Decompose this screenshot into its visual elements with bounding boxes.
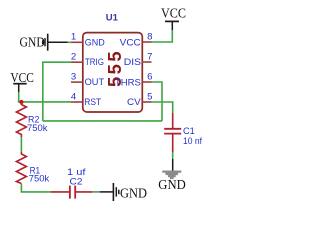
svg-text:10 nf: 10 nf [183,136,202,147]
wire C2 to GND [93,191,100,193]
svg-text:THRS: THRS [115,78,141,89]
svg-text:GND: GND [158,177,186,192]
svg-text:OUT: OUT [85,77,105,88]
svg-text:RST: RST [84,97,101,108]
svg-text:DIS: DIS [124,57,141,68]
svg-text:7: 7 [147,51,152,62]
power VCC (top right) [161,6,186,31]
wire R2 to R1 [20,137,22,152]
svg-text:C2: C2 [70,176,83,187]
svg-text:750k: 750k [27,123,48,134]
op-amp U1 body (555 timer IC) [83,33,143,112]
wire C1 to GND3 [172,152,174,159]
svg-text:6: 6 [147,71,152,82]
wire pin8 to VCC [152,30,173,42]
svg-text:VCC: VCC [120,37,141,48]
svg-text:U1: U1 [106,13,119,24]
wire pin6 THRS right and down [152,82,163,121]
resistor R1 [16,152,26,184]
node junction dot [19,100,23,104]
pin 4 RST stub [71,101,83,103]
wire gnd1 to pin1 [68,41,72,43]
svg-text:2: 2 [71,52,76,63]
svg-text:4: 4 [71,91,77,102]
svg-text:GND: GND [20,34,46,49]
pin 7 DIS stub [142,61,152,63]
svg-text:1: 1 [71,32,76,43]
svg-text:5: 5 [147,91,152,102]
pin 5 CV stub [142,101,152,103]
svg-text:VCC: VCC [10,70,34,85]
wire pin5 CV to C1 [152,102,173,113]
wire VCC-left down to RST rail [19,92,72,102]
capacitor C1 [164,113,181,152]
ground GND1 (top left) [20,34,68,51]
pin 8 VCC stub [142,41,152,43]
power VCC (left) [10,70,34,92]
svg-text:CV: CV [127,97,141,108]
pin 1 GND stub [71,41,83,43]
ground GND3 (bottom right) [158,159,186,192]
wire pin2 TRIG left and down [43,62,72,121]
svg-text:GND: GND [85,37,105,48]
pin 3 OUT stub [71,81,83,83]
svg-text:750k: 750k [29,173,50,184]
svg-text:TRIG: TRIG [85,57,104,68]
svg-text:3: 3 [71,72,76,83]
wire R1 to bottom rail [21,184,51,192]
pin 2 TRIG stub [71,61,83,63]
svg-text:8: 8 [147,31,152,42]
svg-text:GND: GND [120,185,147,200]
ground GND2 (bottom center) [100,183,148,201]
pin 6 THRS stub [142,81,152,83]
resistor R2 [16,102,26,137]
wire TRIG-THRS link [43,120,162,122]
capacitor C2 [51,186,93,199]
svg-text:VCC: VCC [161,6,186,21]
